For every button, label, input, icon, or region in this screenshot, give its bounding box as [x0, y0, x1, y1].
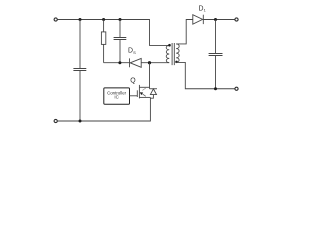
transistor Q1 source arrow head	[140, 92, 143, 95]
wire: input cap lower lead	[79, 71, 81, 121]
wire: output cap lower lead	[215, 56, 217, 89]
wire: secondary top to D1 anode	[176, 20, 193, 44]
wire: clamp cap upper lead	[119, 20, 121, 38]
transistor Q1 source stub	[139, 96, 150, 98]
wire: bottom input rail to MOSFET source	[58, 97, 151, 121]
transformer T1 secondary winding	[176, 44, 179, 63]
wire: D1 cathode to output terminal	[203, 19, 235, 21]
node: clamp line / cap junction	[118, 61, 121, 64]
input terminal top (open circle)	[54, 18, 57, 21]
transformer primary polarity dot	[168, 44, 171, 47]
wire: drain vertical (clamp node to MOSFET drain / body diode)	[149, 63, 151, 89]
transformer T1 primary winding	[166, 45, 169, 62]
capacitor C_out plates	[209, 54, 223, 56]
wire: clamp line right (Ds anode to primary bottom)	[141, 62, 169, 64]
body diode cathode bar	[150, 88, 158, 90]
wire: input cap upper lead	[79, 20, 81, 69]
resistor R (clamp)	[101, 32, 105, 45]
node: output top / cap junction	[214, 18, 217, 21]
svg-text:DS: DS	[128, 48, 136, 55]
diode D1 cathode bar	[202, 15, 204, 24]
diode Ds triangle	[130, 58, 141, 67]
body diode triangle	[150, 89, 156, 95]
transistor Q1 drain diagonal	[142, 88, 145, 90]
wire: gate drive (controller to gate)	[130, 95, 138, 97]
wire: body diode anode to source	[150, 95, 153, 99]
wire: clamp cap lower lead	[119, 40, 121, 63]
output terminal bottom (open circle)	[235, 87, 238, 90]
wire: secondary bottom to output bottom rail	[176, 62, 235, 88]
capacitor C_in plates	[73, 69, 86, 71]
node: clamp line / drain junction	[148, 61, 151, 64]
wire: top input rail to primary top	[58, 20, 170, 46]
transistor Q1 channel bar	[138, 85, 140, 99]
transformer secondary polarity dot	[175, 61, 178, 64]
capacitor C clamp plates	[114, 38, 127, 40]
transistor Q1 source arrow tail	[143, 94, 146, 96]
wire: clamp line left (R bottom to Ds cathode)	[104, 62, 130, 64]
controller IC box	[104, 88, 130, 104]
wire: resistor lower lead	[103, 44, 105, 62]
wire: output cap upper lead	[215, 20, 217, 54]
node: top rail / resistor junction	[102, 18, 105, 21]
transistor Q1 gate bar	[136, 90, 138, 97]
transistor Q1 drain stub	[139, 86, 149, 88]
input terminal bottom (open circle)	[54, 119, 57, 122]
wire: resistor upper lead	[103, 20, 105, 32]
output terminal top (open circle)	[235, 18, 238, 21]
node: top rail / clamp cap junction	[119, 18, 122, 21]
diode Ds cathode bar	[129, 58, 131, 67]
node: bottom rail / input cap junction	[79, 120, 82, 123]
svg-text:IC: IC	[114, 95, 118, 100]
node: top rail / input cap junction	[79, 18, 82, 21]
svg-text:Q: Q	[130, 77, 136, 84]
transformer core lines	[172, 43, 174, 65]
svg-text:D1: D1	[199, 6, 207, 13]
diode D1 triangle	[193, 15, 203, 24]
node: output bottom / cap junction	[214, 87, 217, 90]
